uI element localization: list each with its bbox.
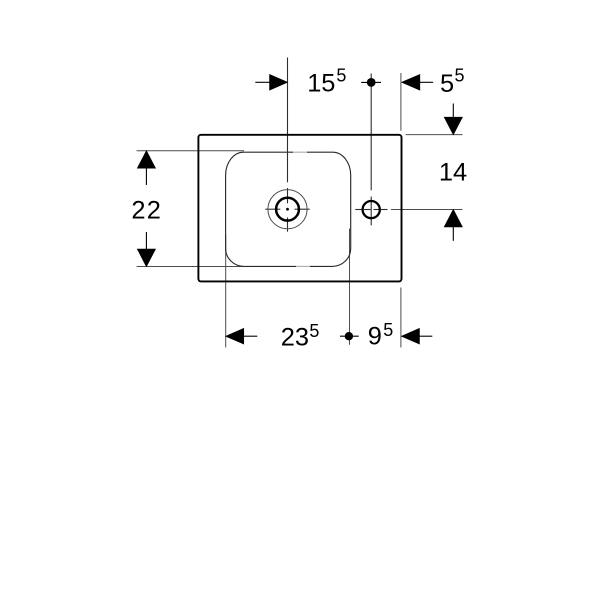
svg-text:5: 5 xyxy=(383,320,393,340)
svg-text:5: 5 xyxy=(455,66,465,86)
svg-text:22: 22 xyxy=(131,196,162,224)
svg-text:5: 5 xyxy=(336,66,346,86)
svg-text:5: 5 xyxy=(440,70,454,98)
svg-text:15: 15 xyxy=(307,70,335,98)
svg-text:23: 23 xyxy=(281,323,309,351)
svg-text:9: 9 xyxy=(368,322,382,350)
svg-text:14: 14 xyxy=(439,159,467,187)
svg-text:5: 5 xyxy=(309,321,319,341)
